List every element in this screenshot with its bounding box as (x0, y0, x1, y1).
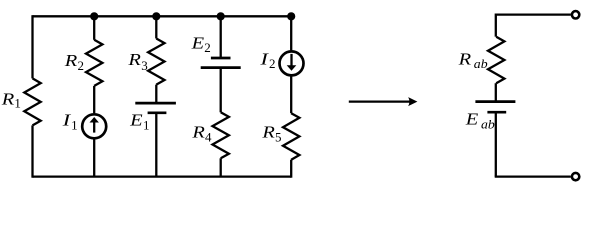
svg-text:4: 4 (205, 129, 212, 144)
svg-text:2: 2 (204, 40, 211, 55)
svg-text:1: 1 (71, 117, 78, 132)
wire right branch upper (495, 14, 497, 37)
svg-text:R: R (127, 50, 141, 69)
resistor R2 (86, 40, 102, 86)
svg-text:R: R (457, 49, 471, 68)
wire bottom bus (33, 175, 292, 177)
resistor R4 (213, 112, 229, 158)
battery Eab (475, 100, 515, 103)
svg-text:ab: ab (481, 116, 495, 131)
arrow equivalence (349, 100, 412, 102)
svg-text:1: 1 (14, 96, 21, 111)
wire right middle (495, 83, 497, 101)
svg-text:E: E (129, 111, 143, 130)
current source I2 (280, 51, 304, 75)
current source I1 (82, 114, 106, 138)
node dot branch4 (217, 12, 225, 20)
svg-text:2: 2 (78, 58, 85, 73)
svg-text:E: E (465, 109, 479, 128)
terminal b (572, 173, 579, 180)
wire branch5 middle (290, 77, 292, 114)
wire right branch lower (495, 112, 497, 176)
svg-text:3: 3 (141, 58, 148, 73)
wire branch3 top (155, 16, 157, 38)
svg-text:1: 1 (143, 117, 150, 132)
node dot branch5 (287, 12, 295, 20)
resistor R1 (24, 78, 40, 125)
wire branch4 middle (220, 68, 222, 113)
wire branch3 middle (155, 85, 157, 104)
svg-text:R: R (191, 122, 205, 141)
svg-text:ab: ab (474, 56, 488, 71)
wire branch2 top (93, 16, 95, 40)
wire branch2 middle (93, 86, 95, 113)
terminal a (572, 11, 579, 18)
wire branch2 bottom (93, 139, 95, 176)
svg-text:5: 5 (275, 129, 282, 144)
wire left branch upper (31, 15, 33, 78)
svg-text:R: R (1, 89, 15, 108)
wire right top (496, 13, 571, 15)
resistor R5 (283, 113, 299, 160)
wire right bottom (495, 175, 571, 177)
resistor Rab (488, 37, 504, 83)
wire branch5 bottom (290, 160, 292, 178)
battery E2 (211, 57, 231, 60)
wire branch3 bottom (155, 113, 157, 177)
svg-text:R: R (64, 51, 78, 70)
svg-text:R: R (261, 122, 275, 141)
wire top bus (33, 15, 292, 17)
wire branch4 top (220, 16, 222, 58)
svg-text:E: E (190, 33, 204, 52)
svg-text:2: 2 (269, 56, 276, 71)
node dot branch2 (90, 12, 98, 20)
wire branch5 top (290, 16, 292, 50)
wire branch4 bottom (220, 158, 222, 176)
battery E1 (135, 102, 176, 105)
resistor R3 (148, 39, 164, 85)
node dot branch3 (152, 12, 160, 20)
wire left branch lower (31, 125, 33, 177)
